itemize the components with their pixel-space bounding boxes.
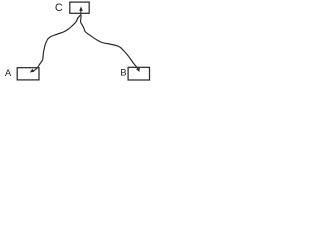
- arrowhead into C: [79, 6, 83, 10]
- arrowhead into B: [136, 68, 140, 72]
- box C: [70, 2, 89, 13]
- wire C to B: [81, 15, 139, 69]
- svg-text:A: A: [5, 68, 12, 79]
- svg-text:C: C: [55, 2, 63, 14]
- box A: [17, 68, 39, 80]
- wire C to A: [34, 15, 81, 71]
- arrow stem into C: [80, 10, 82, 15]
- arrowhead into A: [30, 69, 35, 73]
- box B: [128, 67, 149, 80]
- svg-text:B: B: [120, 67, 126, 78]
